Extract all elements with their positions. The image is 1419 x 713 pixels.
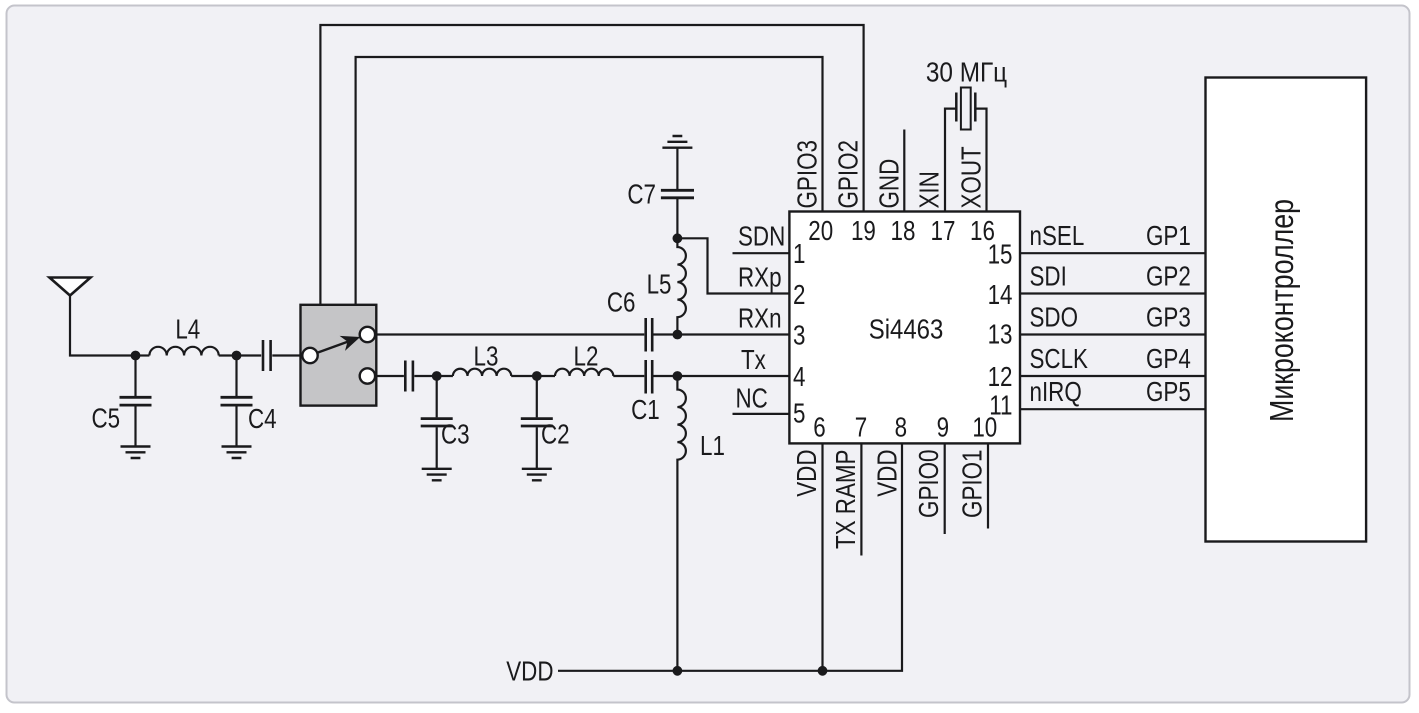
svg-text:GP5: GP5	[1146, 377, 1191, 408]
capacitor C5 plates	[120, 397, 152, 405]
switch throw terminal RX	[360, 327, 375, 342]
inductor L4	[149, 347, 218, 356]
wire node1 to L4	[136, 354, 150, 356]
ground inverted above C7	[662, 136, 692, 148]
wire C7 to node RXP	[676, 199, 678, 238]
svg-text:12: 12	[988, 362, 1013, 393]
capacitor C6 plates	[646, 318, 653, 352]
svg-text:4: 4	[793, 362, 805, 393]
svg-text:C2: C2	[541, 419, 570, 450]
wire nIRQ pin11 to MCU	[1020, 408, 1206, 410]
capacitor C4 branch wires	[235, 356, 237, 447]
wire SDN stub pin1	[733, 252, 790, 254]
svg-text:3: 3	[793, 320, 805, 351]
svg-text:SCLK: SCLK	[1030, 344, 1089, 375]
IC U1 Si4463 body	[789, 212, 1020, 444]
inductor L5	[677, 238, 685, 334]
capacitor C2 plates	[521, 419, 553, 426]
svg-text:20: 20	[808, 216, 833, 247]
svg-text:19: 19	[851, 216, 876, 247]
capacitor C4 plates	[221, 397, 253, 405]
wire nSEL pin15 to MCU	[1020, 252, 1206, 254]
svg-text:C7: C7	[627, 179, 656, 210]
wire pin17 XIN to crystal	[945, 109, 956, 212]
wire SCLK pin12 to MCU	[1020, 375, 1206, 377]
wire pin10 GPIO1 stub	[987, 443, 989, 528]
switch throw terminal TX	[360, 368, 375, 383]
svg-text:NC: NC	[736, 383, 768, 414]
svg-text:14: 14	[988, 280, 1013, 311]
svg-text:XIN: XIN	[914, 171, 945, 208]
node dot C7-L5-RXp	[673, 233, 683, 243]
capacitor C7 plates	[661, 190, 694, 198]
svg-text:SDO: SDO	[1030, 302, 1079, 333]
capacitor C2 branch wires	[536, 376, 538, 469]
svg-text:Si4463: Si4463	[869, 313, 943, 345]
wire C6 to RXn pin3	[654, 333, 790, 335]
ground for C5	[121, 447, 151, 459]
capacitor C3 plates	[421, 419, 453, 426]
switch SW1 box	[301, 305, 377, 406]
svg-text:L2: L2	[574, 341, 599, 372]
svg-text:15: 15	[988, 239, 1013, 270]
svg-text:GP2: GP2	[1146, 261, 1191, 292]
crystal Y1 plates	[956, 93, 975, 122]
svg-text:GPIO0: GPIO0	[914, 450, 945, 518]
wire L4 to node2	[219, 354, 262, 356]
capacitor C1 plates	[646, 360, 653, 394]
ground for C2	[522, 469, 552, 481]
node dot L5-RXn	[673, 330, 683, 340]
svg-text:17: 17	[931, 216, 956, 247]
svg-text:GPIO2: GPIO2	[833, 140, 864, 208]
wire C1 to Tx pin4	[654, 375, 790, 377]
capacitor series unlabeled B plates	[405, 361, 413, 392]
wire TX: switch bottom circle to capB	[375, 375, 404, 377]
wire SDO pin13 to MCU	[1020, 333, 1206, 335]
svg-text:RXn: RXn	[738, 303, 782, 334]
svg-text:GPIO1: GPIO1	[957, 450, 988, 518]
svg-text:C6: C6	[607, 287, 636, 318]
wire GPIO3 bus: switch to pin20	[356, 57, 823, 305]
capacitor C3 branch wires	[436, 376, 438, 469]
svg-text:nSEL: nSEL	[1030, 221, 1085, 252]
svg-text:L1: L1	[700, 431, 725, 462]
svg-text:VDD: VDD	[506, 656, 553, 687]
wire RX: switch top circle to C6	[375, 333, 644, 335]
svg-text:11: 11	[989, 390, 1012, 421]
svg-text:Tx: Tx	[741, 345, 766, 376]
wire node to RXp pin2	[677, 238, 789, 293]
wire capA to switch	[272, 354, 302, 356]
wire pin9 GPIO0 stub	[944, 443, 946, 534]
svg-text:L5: L5	[647, 269, 672, 300]
svg-text:GP4: GP4	[1146, 344, 1191, 375]
capacitor series unlabeled A plates	[263, 340, 271, 371]
wire pin18 GND stub	[903, 130, 905, 212]
inductor L1	[677, 376, 685, 671]
svg-text:5: 5	[793, 398, 805, 429]
svg-text:C5: C5	[91, 403, 120, 434]
svg-text:GP1: GP1	[1146, 221, 1191, 252]
node dot L1-Tx	[673, 371, 683, 381]
svg-text:L3: L3	[474, 341, 499, 372]
switch arrow	[318, 341, 349, 352]
node dot C4 tap	[232, 351, 242, 361]
svg-text:6: 6	[813, 412, 825, 443]
svg-text:GP3: GP3	[1146, 302, 1191, 333]
svg-text:VDD: VDD	[872, 450, 903, 497]
svg-text:8: 8	[895, 412, 907, 443]
MCU U2 body	[1206, 78, 1367, 542]
svg-text:RXp: RXp	[738, 262, 782, 293]
svg-text:C3: C3	[441, 419, 470, 450]
svg-text:GND: GND	[874, 159, 905, 209]
crystal Y1 body	[961, 88, 971, 130]
svg-text:nIRQ: nIRQ	[1030, 377, 1082, 408]
svg-text:C4: C4	[248, 404, 277, 435]
antenna W1	[50, 278, 91, 296]
wire L2 to C1	[613, 375, 644, 377]
wire NC stub pin5	[733, 413, 790, 415]
svg-text:C1: C1	[631, 395, 660, 426]
wire GPIO2 bus: switch to pin19	[320, 25, 863, 305]
svg-text:1: 1	[793, 239, 805, 270]
ground for C4	[222, 447, 252, 459]
wire L3 to L2	[511, 375, 555, 377]
svg-text:SDI: SDI	[1030, 261, 1067, 292]
wire pin6 VDD stub	[821, 443, 823, 670]
svg-text:VDD: VDD	[792, 450, 823, 497]
svg-text:7: 7	[855, 412, 867, 443]
switch pole terminal	[302, 348, 317, 363]
node dot C5 tap	[131, 351, 141, 361]
svg-text:Микроконтроллер: Микроконтроллер	[1264, 199, 1300, 422]
svg-text:2: 2	[793, 280, 805, 311]
wire VDD bus	[558, 443, 902, 670]
svg-text:18: 18	[891, 216, 916, 247]
node dot C3 tap	[432, 371, 442, 381]
svg-text:13: 13	[988, 319, 1013, 350]
svg-text:SDN: SDN	[738, 221, 785, 252]
wire pin16 XOUT to crystal	[976, 109, 987, 212]
node dot pin6-VDD bus	[818, 666, 828, 676]
wire SDI pin14 to MCU	[1020, 292, 1206, 294]
inductor L2	[555, 369, 613, 376]
svg-text:L4: L4	[175, 314, 200, 345]
svg-text:30 МГц: 30 МГц	[926, 56, 1007, 88]
node dot L1-VDD bus	[673, 666, 683, 676]
wire antenna lead	[70, 295, 134, 356]
node dot C2 tap	[532, 371, 542, 381]
wire ground to C7	[676, 148, 678, 189]
inductor L3	[453, 369, 511, 376]
wire capB to L3	[414, 375, 453, 377]
svg-text:XOUT: XOUT	[956, 146, 987, 208]
capacitor C5 branch wires	[134, 356, 136, 447]
svg-text:9: 9	[937, 412, 949, 443]
ground for C3	[422, 469, 452, 481]
svg-text:TX RAMP: TX RAMP	[831, 450, 862, 550]
svg-text:GPIO3: GPIO3	[792, 140, 823, 208]
wire pin7 TXRAMP stub	[860, 443, 862, 555]
